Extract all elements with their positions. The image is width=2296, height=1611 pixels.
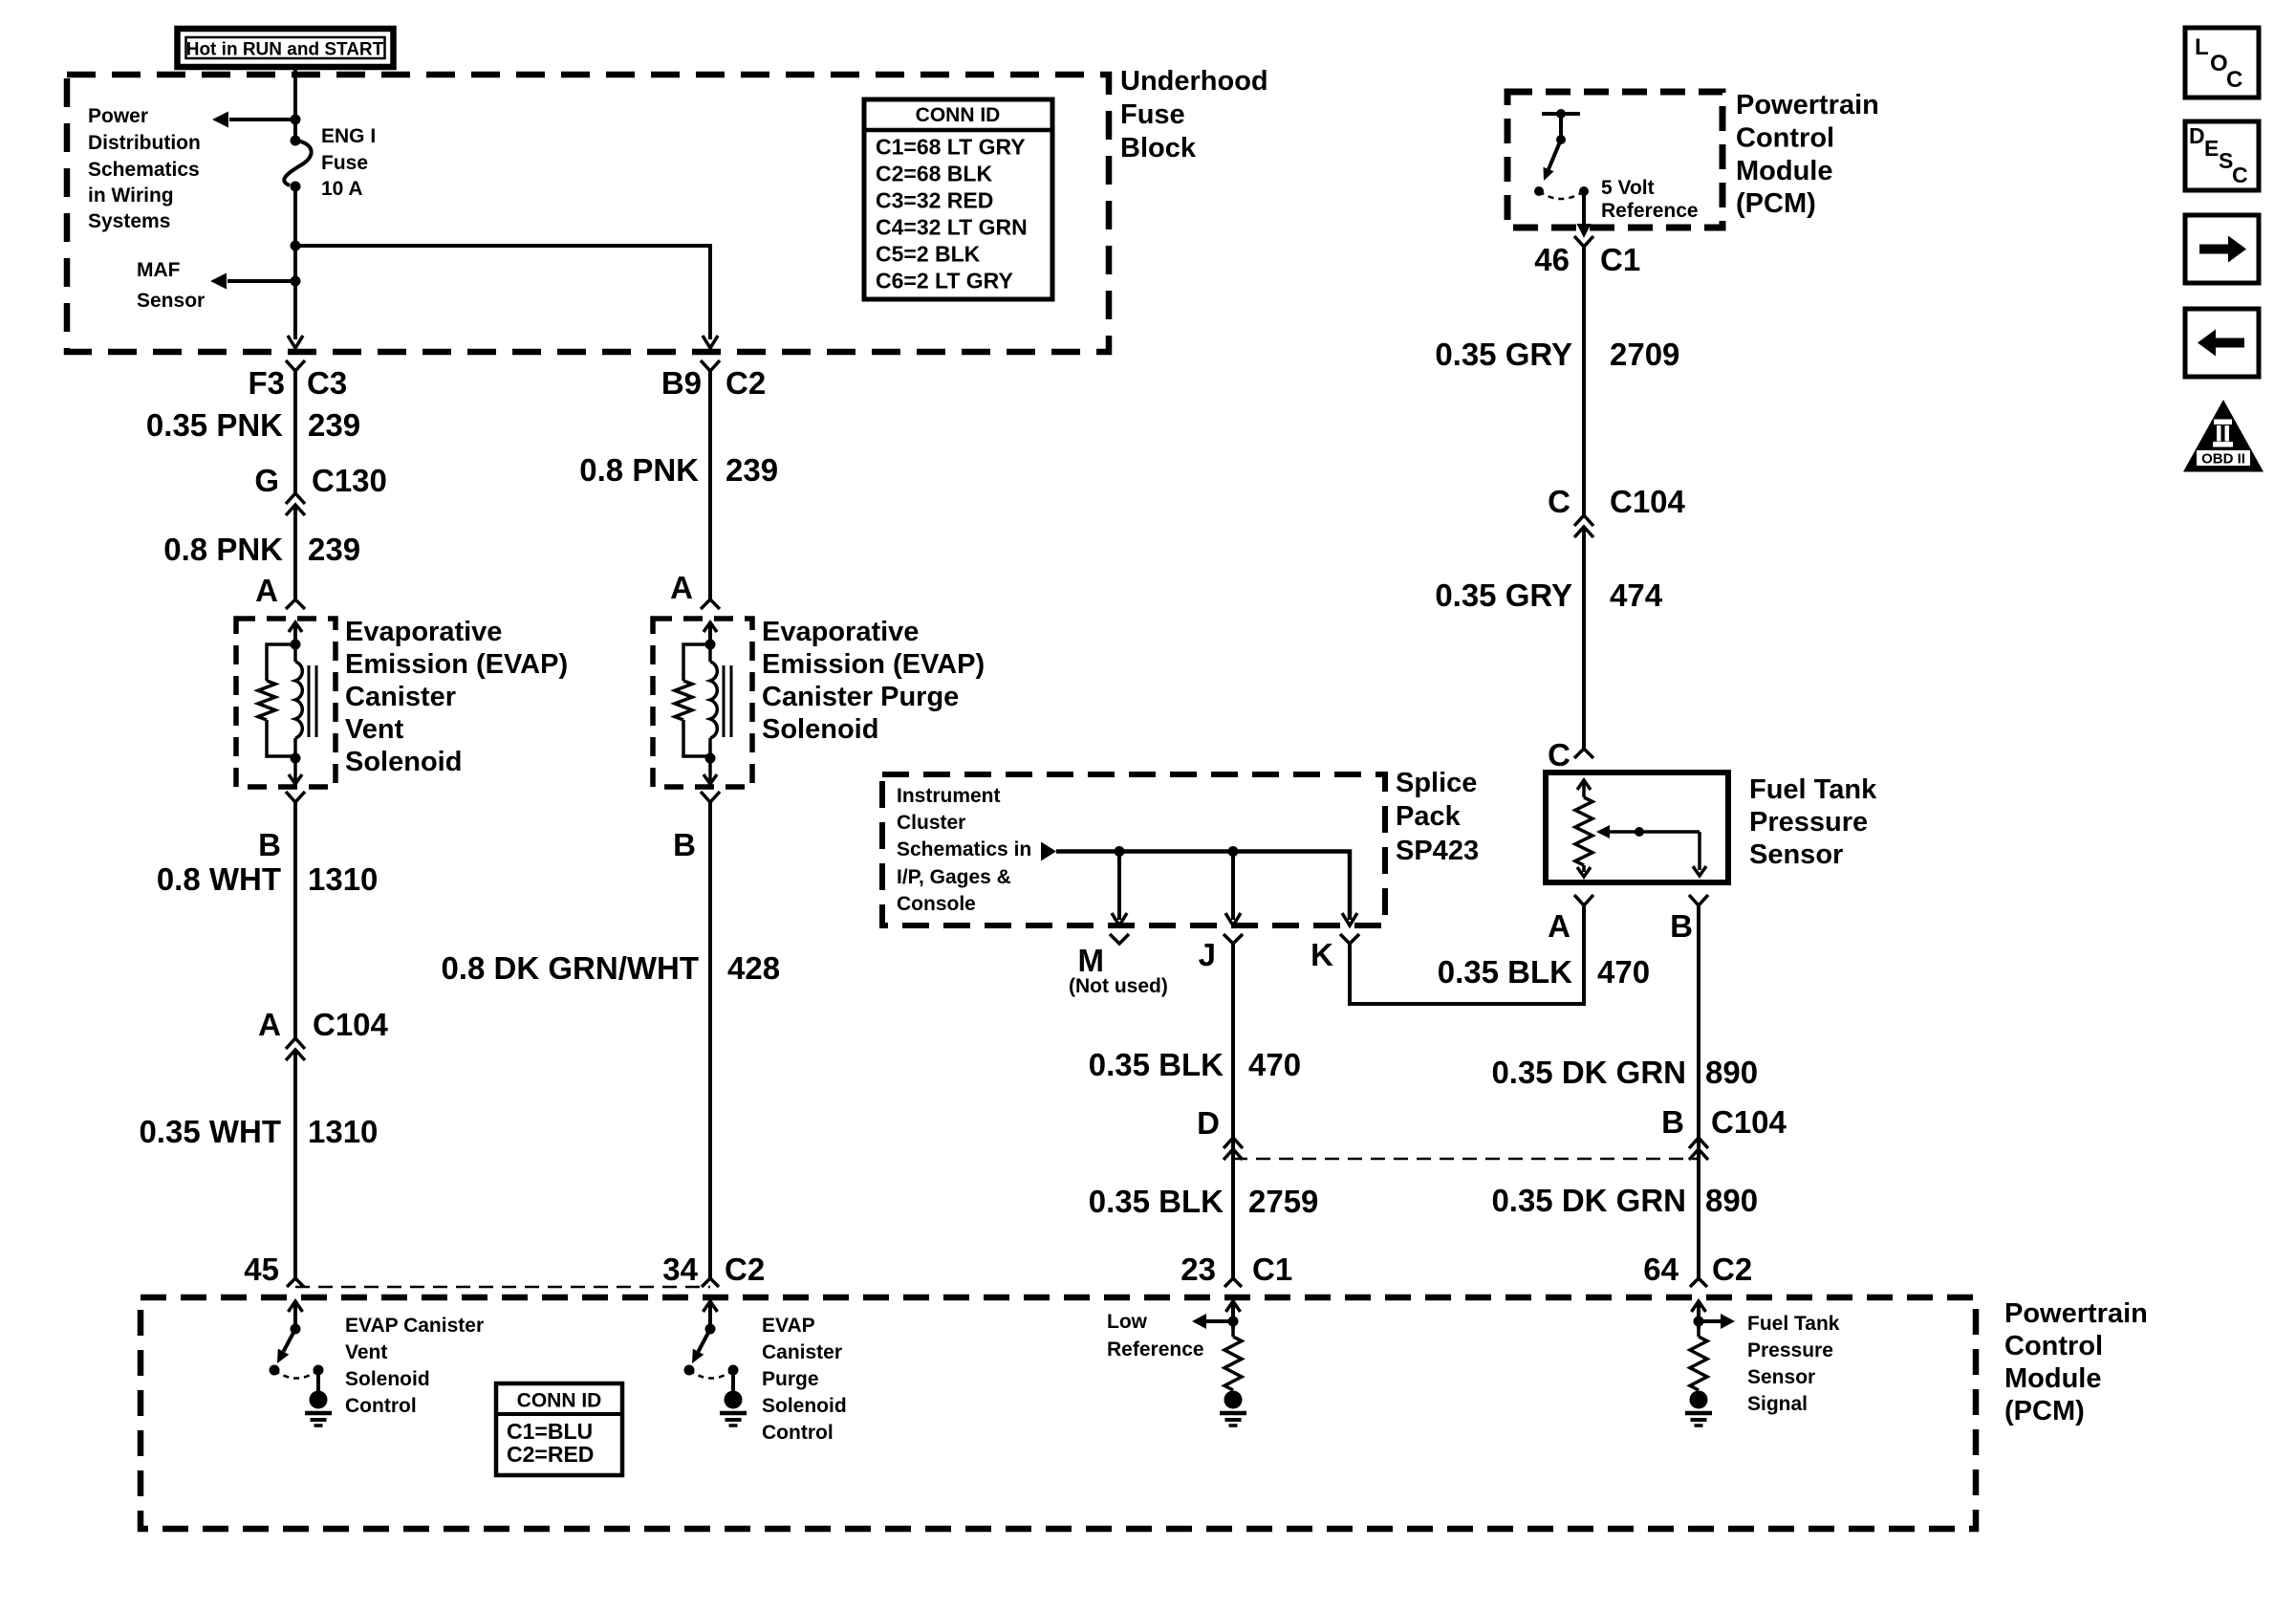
- svg-text:CONN ID: CONN ID: [916, 104, 1001, 126]
- fuel tank pressure sensor signal input circuit: [1697, 1303, 1700, 1329]
- svg-text:Distribution: Distribution: [88, 132, 201, 154]
- svg-text:Control: Control: [345, 1395, 417, 1417]
- sensor connector pin B: [1689, 895, 1708, 905]
- fuse ENG I 10 A: [291, 136, 301, 146]
- wire 0.8 PNK 239 purge: [708, 371, 712, 599]
- forward arrow navigation icon: [2185, 215, 2259, 283]
- purge solenoid connector pin B: [701, 792, 720, 802]
- svg-text:Solenoid: Solenoid: [762, 1395, 847, 1417]
- OBD II triangle icon: [2183, 400, 2264, 472]
- svg-text:Schematics: Schematics: [88, 159, 200, 181]
- junction node to MAF Sensor: [291, 276, 301, 287]
- solenoid connector pin B: [286, 792, 305, 802]
- wire from Hot in RUN and START into fuse block: [293, 67, 297, 142]
- low reference ground: [1224, 1391, 1243, 1409]
- wire 0.8 DK GRN/WHT 428: [708, 808, 712, 1278]
- svg-text:470: 470: [1248, 1047, 1301, 1082]
- CONN ID table for PCM: [496, 1383, 622, 1475]
- svg-text:Sensor: Sensor: [1747, 1366, 1815, 1388]
- svg-text:1310: 1310: [308, 861, 378, 897]
- svg-text:Canister Purge: Canister Purge: [762, 682, 959, 712]
- svg-text:0.35 DK GRN: 0.35 DK GRN: [1491, 1055, 1686, 1090]
- svg-text:B: B: [1670, 908, 1693, 944]
- svg-text:C1: C1: [1600, 242, 1640, 277]
- wire 0.35 GRY 2709: [1582, 247, 1586, 515]
- svg-text:Purge: Purge: [762, 1368, 819, 1390]
- DESC navigation icon: [2185, 121, 2259, 190]
- svg-text:0.35 GRY: 0.35 GRY: [1435, 337, 1572, 372]
- PCM connector C1 pin 46: [1574, 236, 1593, 247]
- svg-text:C: C: [1548, 737, 1570, 773]
- svg-text:C: C: [2226, 67, 2242, 93]
- wire stub to terminal J: [1231, 852, 1235, 921]
- svg-text:C2: C2: [725, 1252, 765, 1287]
- svg-text:0.8 WHT: 0.8 WHT: [157, 861, 281, 897]
- junction node branch to B9: [291, 241, 301, 251]
- svg-text:C2=68 BLK: C2=68 BLK: [876, 162, 992, 186]
- EVAP canister vent solenoid coil and resistor: [293, 624, 297, 644]
- svg-text:Canister: Canister: [345, 682, 456, 712]
- svg-text:B: B: [1661, 1104, 1684, 1140]
- svg-text:0.35 DK GRN: 0.35 DK GRN: [1491, 1183, 1686, 1218]
- svg-text:D: D: [1197, 1105, 1220, 1141]
- svg-text:OBD II: OBD II: [2201, 451, 2245, 468]
- svg-text:0.8 DK GRN/WHT: 0.8 DK GRN/WHT: [441, 950, 699, 986]
- svg-text:A: A: [1548, 908, 1570, 944]
- svg-text:Solenoid: Solenoid: [345, 747, 462, 777]
- svg-text:474: 474: [1610, 577, 1663, 613]
- low reference pull resistor: [1224, 1337, 1242, 1390]
- svg-text:0.35 BLK: 0.35 BLK: [1089, 1184, 1224, 1219]
- svg-text:0.8 PNK: 0.8 PNK: [579, 452, 699, 488]
- junction node J: [1228, 846, 1239, 857]
- svg-text:Fuse: Fuse: [321, 152, 368, 174]
- back arrow navigation icon: [2185, 309, 2259, 377]
- svg-text:G: G: [254, 463, 279, 498]
- svg-text:EVAP: EVAP: [762, 1315, 815, 1337]
- EVAP Canister Vent Solenoid dashed box: [236, 619, 336, 787]
- svg-text:10 A: 10 A: [321, 178, 363, 200]
- CONN ID table for Underhood Fuse Block: [864, 99, 1052, 299]
- terminal J: [1224, 934, 1243, 944]
- svg-text:(PCM): (PCM): [1736, 188, 1816, 219]
- Powertrain Control Module dashed box bottom: [141, 1297, 1976, 1529]
- svg-text:1310: 1310: [308, 1114, 378, 1149]
- wire arrow to Power Distribution Schematics: [229, 118, 295, 121]
- svg-text:0.8 PNK: 0.8 PNK: [163, 532, 283, 567]
- signal pull resistor: [1690, 1337, 1707, 1390]
- svg-text:Fuse: Fuse: [1120, 99, 1185, 130]
- svg-text:Splice: Splice: [1396, 768, 1477, 798]
- svg-text:C1=BLU: C1=BLU: [507, 1419, 593, 1444]
- svg-text:428: 428: [727, 950, 780, 986]
- svg-text:2759: 2759: [1248, 1184, 1318, 1219]
- svg-text:E: E: [2204, 136, 2219, 161]
- svg-text:J: J: [1199, 937, 1216, 972]
- svg-text:46: 46: [1534, 242, 1570, 277]
- svg-text:C2: C2: [726, 365, 766, 401]
- power feed label box 'Hot in RUN and START': [178, 29, 394, 67]
- wire 0.8 PNK 239: [293, 505, 297, 599]
- svg-text:Emission (EVAP): Emission (EVAP): [762, 649, 985, 680]
- connector C2 pin B9: [701, 360, 720, 371]
- wire 0.35 WHT 1310: [293, 1050, 297, 1278]
- svg-text:Block: Block: [1120, 133, 1197, 163]
- svg-text:C1=68 LT GRY: C1=68 LT GRY: [876, 135, 1026, 160]
- svg-text:45: 45: [244, 1252, 279, 1287]
- svg-text:0.35 BLK: 0.35 BLK: [1089, 1047, 1224, 1082]
- wire stub to terminal M: [1117, 852, 1121, 921]
- sensor potentiometer: [1582, 782, 1586, 797]
- svg-text:Solenoid: Solenoid: [762, 714, 878, 745]
- wire 0.35 BLK 470 from J: [1231, 945, 1235, 1278]
- svg-text:Power: Power: [88, 105, 148, 127]
- splice pack feed arrow from instrument cluster: [1041, 842, 1056, 861]
- wire 0.35 PNK 239: [293, 371, 297, 493]
- svg-text:Instrument: Instrument: [897, 785, 1001, 807]
- svg-text:C2=RED: C2=RED: [507, 1442, 594, 1467]
- connector C3 pin F3: [286, 360, 305, 371]
- svg-text:A: A: [258, 1007, 281, 1042]
- svg-text:MAF: MAF: [137, 259, 181, 281]
- thin dashed connector line between pins 45 and 34: [295, 1286, 710, 1289]
- LOC navigation icon: [2185, 28, 2259, 98]
- svg-text:C104: C104: [1610, 484, 1686, 519]
- svg-text:Evaporative: Evaporative: [762, 617, 919, 647]
- sensor wiper arm: [1610, 830, 1700, 834]
- svg-text:Signal: Signal: [1747, 1393, 1808, 1415]
- svg-text:A: A: [255, 573, 278, 608]
- low reference input circuit: [1231, 1303, 1235, 1329]
- Underhood Fuse Block dashed box: [67, 75, 1109, 352]
- svg-text:Fuel Tank: Fuel Tank: [1749, 774, 1877, 805]
- svg-text:Hot in RUN and START: Hot in RUN and START: [186, 40, 384, 60]
- svg-text:ENG I: ENG I: [321, 125, 376, 147]
- svg-text:in Wiring: in Wiring: [88, 185, 174, 207]
- sensor connector pin A: [1574, 895, 1593, 905]
- svg-text:Vent: Vent: [345, 714, 404, 745]
- svg-text:Sensor: Sensor: [137, 290, 205, 312]
- svg-text:C130: C130: [312, 463, 387, 498]
- junction node M: [1115, 846, 1125, 857]
- svg-text:C: C: [2232, 163, 2248, 187]
- svg-text:5 Volt: 5 Volt: [1601, 177, 1655, 199]
- svg-text:470: 470: [1597, 954, 1650, 990]
- svg-text:Sensor: Sensor: [1749, 839, 1843, 870]
- PCM 5 volt reference driver switch: [1542, 112, 1580, 116]
- terminal M (not used): [1110, 934, 1129, 944]
- wire 0.8 WHT 1310: [293, 808, 297, 1038]
- wire branch to connector C2 pin B9: [295, 246, 710, 339]
- svg-text:23: 23: [1180, 1252, 1216, 1287]
- svg-text:64: 64: [1643, 1252, 1679, 1287]
- svg-text:C3=32 RED: C3=32 RED: [876, 188, 993, 213]
- svg-text:Canister: Canister: [762, 1341, 842, 1363]
- wire 0.35 GRY 474: [1582, 527, 1586, 749]
- svg-text:890: 890: [1705, 1055, 1758, 1090]
- svg-text:B9: B9: [661, 365, 702, 401]
- svg-text:I/P, Gages &: I/P, Gages &: [897, 866, 1011, 888]
- svg-text:Emission (EVAP): Emission (EVAP): [345, 649, 568, 680]
- svg-text:Reference: Reference: [1601, 200, 1699, 222]
- wire arrow to MAF Sensor: [227, 279, 295, 283]
- EVAP canister purge solenoid coil and resistor: [708, 624, 712, 644]
- svg-text:(Not used): (Not used): [1069, 975, 1168, 997]
- svg-text:L: L: [2195, 34, 2209, 60]
- svg-text:Pressure: Pressure: [1747, 1339, 1833, 1361]
- wire 5 volt reference output: [1582, 191, 1586, 226]
- svg-text:Fuel Tank: Fuel Tank: [1747, 1313, 1840, 1335]
- svg-text:K: K: [1310, 937, 1333, 972]
- svg-text:C104: C104: [313, 1007, 389, 1042]
- svg-text:SP423: SP423: [1396, 836, 1479, 866]
- svg-text:A: A: [670, 570, 693, 605]
- svg-text:34: 34: [662, 1252, 698, 1287]
- svg-text:C2: C2: [1712, 1252, 1752, 1287]
- svg-text:Systems: Systems: [88, 210, 170, 232]
- svg-text:239: 239: [726, 452, 778, 488]
- svg-text:CONN ID: CONN ID: [517, 1390, 602, 1412]
- svg-text:239: 239: [308, 532, 360, 567]
- wire 0.35 DK GRN 890: [1697, 906, 1700, 1278]
- svg-text:0.35 BLK: 0.35 BLK: [1438, 954, 1572, 990]
- svg-text:2709: 2709: [1610, 337, 1679, 372]
- svg-text:B: B: [258, 827, 281, 862]
- svg-text:Control: Control: [762, 1422, 834, 1444]
- splice pack bus wire: [1056, 852, 1350, 921]
- svg-text:C104: C104: [1711, 1104, 1787, 1140]
- thin dashed connector line between D and B C104: [1233, 1158, 1699, 1161]
- svg-text:Low: Low: [1107, 1311, 1148, 1333]
- svg-text:M: M: [1078, 943, 1105, 978]
- svg-text:C5=2 BLK: C5=2 BLK: [876, 242, 981, 267]
- svg-text:239: 239: [308, 407, 360, 443]
- svg-text:0.35 GRY: 0.35 GRY: [1435, 577, 1572, 613]
- terminal K: [1340, 934, 1359, 944]
- EVAP canister vent solenoid control driver: [293, 1303, 297, 1329]
- svg-text:Cluster: Cluster: [897, 812, 965, 834]
- svg-text:Console: Console: [897, 893, 976, 915]
- svg-text:Underhood: Underhood: [1120, 66, 1268, 97]
- svg-text:Control: Control: [1736, 123, 1834, 154]
- svg-text:(PCM): (PCM): [2004, 1396, 2085, 1426]
- svg-text:Control: Control: [2004, 1331, 2103, 1361]
- svg-text:Vent: Vent: [345, 1341, 387, 1363]
- svg-text:890: 890: [1705, 1183, 1758, 1218]
- Instrument Cluster dashed box: [882, 774, 1385, 925]
- svg-text:C3: C3: [307, 365, 347, 401]
- svg-text:Schematics in: Schematics in: [897, 838, 1031, 860]
- svg-text:Module: Module: [1736, 156, 1833, 186]
- svg-text:C4=32 LT GRN: C4=32 LT GRN: [876, 215, 1028, 240]
- Powertrain Control Module dashed box top: [1507, 92, 1722, 228]
- svg-text:D: D: [2189, 123, 2205, 148]
- svg-text:C1: C1: [1252, 1252, 1292, 1287]
- Fuel Tank Pressure Sensor box: [1546, 773, 1728, 882]
- svg-text:Evaporative: Evaporative: [345, 617, 502, 647]
- svg-text:O: O: [2210, 51, 2228, 76]
- svg-text:B: B: [673, 827, 696, 862]
- EVAP Canister Purge Solenoid dashed box: [653, 619, 752, 787]
- svg-text:F3: F3: [248, 365, 285, 401]
- svg-text:Solenoid: Solenoid: [345, 1368, 430, 1390]
- svg-text:C: C: [1548, 484, 1570, 519]
- svg-text:C6=2 LT GRY: C6=2 LT GRY: [876, 269, 1013, 294]
- svg-text:Pack: Pack: [1396, 801, 1462, 832]
- svg-text:Pressure: Pressure: [1749, 807, 1868, 838]
- svg-text:Reference: Reference: [1107, 1339, 1204, 1361]
- svg-text:Powertrain: Powertrain: [2004, 1298, 2148, 1329]
- svg-text:0.35 WHT: 0.35 WHT: [139, 1114, 281, 1149]
- svg-text:0.35 PNK: 0.35 PNK: [146, 407, 283, 443]
- junction node to Power Distribution: [291, 115, 301, 125]
- EVAP canister purge solenoid control driver: [708, 1303, 712, 1329]
- svg-text:Powertrain: Powertrain: [1736, 90, 1879, 120]
- wire 0.35 BLK 470 from K to fuel tank pressure sensor A: [1350, 906, 1584, 1004]
- svg-text:Module: Module: [2004, 1363, 2102, 1394]
- svg-text:EVAP Canister: EVAP Canister: [345, 1315, 484, 1337]
- wire fuse output down to connector C3: [293, 186, 297, 339]
- signal ground: [1690, 1391, 1708, 1409]
